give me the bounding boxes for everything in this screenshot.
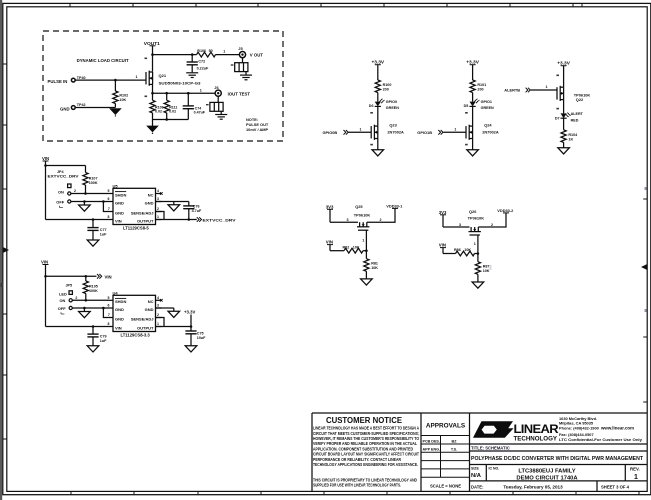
svg-text:200: 200 — [383, 88, 389, 92]
svg-text:3: 3 — [459, 223, 461, 227]
svg-text:Q22: Q22 — [576, 97, 584, 102]
svg-text:GND: GND — [115, 200, 124, 205]
svg-text:R107: R107 — [89, 177, 98, 181]
svg-text:+3.3V: +3.3V — [184, 310, 195, 315]
node junction C79 top — [92, 325, 95, 328]
wire U4 SENSE/ADJ to output row — [156, 318, 165, 327]
svg-text:1: 1 — [157, 322, 159, 326]
svg-text:1: 1 — [634, 474, 638, 481]
svg-text:1: 1 — [136, 75, 138, 79]
pin tiny mark — [370, 144, 373, 146]
pin tiny mark — [370, 112, 373, 114]
svg-text:1: 1 — [157, 215, 159, 219]
wire LED to Q24 drain — [472, 106, 474, 126]
svg-text:NC: NC — [148, 192, 154, 197]
svg-text:1: 1 — [474, 242, 476, 246]
svg-text:R104: R104 — [568, 133, 578, 137]
wire VIN left rail down — [45, 166, 47, 220]
svg-text:R100: R100 — [383, 83, 392, 87]
svg-text:NC: NC — [148, 299, 154, 304]
wire R82 to junction — [363, 250, 366, 252]
svg-text:R86: R86 — [454, 248, 461, 252]
node junction pins 6-7 link — [102, 200, 105, 203]
svg-text:1: 1 — [454, 127, 456, 131]
right border zone ticks — [643, 199, 647, 402]
pin tiny mark — [556, 75, 559, 77]
svg-text:VIN: VIN — [439, 243, 446, 248]
svg-text:RED: RED — [571, 119, 579, 123]
svg-text:THIS CIRCUIT IS PROPRIETARY TO: THIS CIRCUIT IS PROPRIETARY TO LINEAR TE… — [313, 477, 417, 482]
pin tiny mark — [556, 108, 559, 110]
svg-text:SUD50N03-10CP-G3: SUD50N03-10CP-G3 — [159, 82, 201, 86]
wire U5 SENSE/ADJ to output row — [156, 212, 165, 220]
svg-text:N/A: N/A — [471, 473, 482, 479]
svg-text:SENSE/ADJ: SENSE/ADJ — [131, 316, 154, 321]
svg-text:4: 4 — [157, 189, 159, 193]
wire Q23 source to ground — [377, 139, 379, 150]
svg-text:VDD33-2: VDD33-2 — [497, 208, 514, 213]
svg-text:C77: C77 — [100, 228, 107, 232]
svg-text:VIN: VIN — [41, 260, 48, 265]
resistor R101 200 — [470, 80, 475, 93]
node junction gate/R81 — [365, 249, 368, 252]
ground under R81 — [361, 279, 373, 285]
svg-text:GPIO0: GPIO0 — [386, 100, 397, 104]
svg-text:LT1129CS8-5: LT1129CS8-5 — [123, 225, 149, 230]
resistor R87 10K — [477, 254, 479, 262]
wire R87 to ground — [477, 274, 479, 282]
svg-text:8: 8 — [108, 215, 110, 219]
svg-text:TITLE: SCHEMATIC: TITLE: SCHEMATIC — [471, 446, 510, 451]
svg-text:4.7uF: 4.7uF — [192, 209, 202, 213]
node junction Q21 source — [151, 92, 154, 95]
svg-text:2N7002A: 2N7002A — [482, 129, 499, 134]
svg-text:ALERT: ALERT — [571, 112, 584, 116]
wire R86 to junction — [475, 253, 478, 255]
svg-text:VIN: VIN — [115, 218, 122, 223]
svg-text:SCALE = NONE: SCALE = NONE — [430, 483, 461, 488]
svg-text:VOUT1: VOUT1 — [144, 41, 161, 46]
scan edge gray bar — [0, 0, 2, 500]
capacitor C77 1uF — [92, 220, 94, 228]
transistor Q21 SUD50N03-10CP-G3 — [146, 71, 153, 86]
svg-text:APP ENG.: APP ENG. — [423, 448, 441, 452]
svg-text:TP0610K: TP0610K — [354, 213, 371, 218]
svg-text:TP42: TP42 — [77, 103, 86, 107]
wire LED to R104 — [563, 118, 565, 130]
svg-text:2: 2 — [157, 207, 159, 211]
svg-text:DYNAMIC LOAD CIRCUIT: DYNAMIC LOAD CIRCUIT — [77, 58, 129, 63]
wire R81 to ground — [365, 271, 367, 279]
svg-text:VDD33-1: VDD33-1 — [386, 203, 403, 208]
svg-text:V OUT: V OUT — [250, 53, 264, 58]
resistor R105 100K — [85, 276, 87, 281]
svg-text:6: 6 — [108, 197, 110, 201]
ground bar under J5 pads — [240, 75, 252, 80]
Linear Technology logo — [473, 421, 514, 438]
node junction C72 top — [191, 53, 194, 56]
svg-text:APPROVALS: APPROVALS — [426, 423, 466, 430]
pin tiny mark — [465, 144, 468, 146]
wire VIN to R82 — [330, 250, 344, 252]
svg-text:VIN: VIN — [105, 274, 112, 279]
svg-text:10mV / AMP: 10mV / AMP — [246, 127, 269, 132]
svg-text:D7: D7 — [555, 116, 560, 120]
regulator U5 LT1129CS8-5 — [113, 188, 156, 224]
node junction R105 top — [85, 275, 88, 278]
resistor R109 0.02 — [152, 93, 154, 100]
svg-text:50: 50 — [209, 49, 213, 53]
transistor Q26 TP0610K — [469, 227, 481, 235]
svg-text:C79: C79 — [100, 334, 107, 338]
svg-text:Phone: (408)432-1900: Phone: (408)432-1900 — [559, 426, 599, 431]
svg-text:GPIO1: GPIO1 — [481, 100, 492, 104]
svg-text:GND: GND — [145, 307, 154, 312]
ground under R104 — [558, 148, 570, 154]
wire VDD33-2 down and to Q26 drain — [478, 213, 506, 227]
right border center arrow mark — [641, 264, 647, 270]
svg-text:SHDN: SHDN — [115, 299, 126, 304]
off-page connector EXTVCC_DRV — [197, 217, 202, 222]
wire VIN to R86 — [443, 253, 456, 255]
wire VOUT1 rail down to Q21 drain — [152, 55, 154, 72]
wire jumper ON to U4 SHDN — [72, 299, 107, 301]
svg-text:ON: ON — [60, 298, 66, 303]
svg-text:CUSTOMER NOTICE: CUSTOMER NOTICE — [326, 416, 402, 425]
svg-text:2N7002A: 2N7002A — [387, 129, 404, 134]
svg-text:10K: 10K — [483, 269, 490, 273]
node junction VIN top — [44, 275, 47, 278]
svg-text:POLYPHASE DC/DC CONVERTER WITH: POLYPHASE DC/DC CONVERTER WITH DIGITAL P… — [471, 456, 644, 462]
address block — [559, 416, 643, 442]
svg-text:EXTVCC_DRV: EXTVCC_DRV — [203, 218, 236, 223]
NC pin no-connect mark — [160, 299, 163, 302]
svg-text:U4: U4 — [113, 290, 119, 295]
wire VIN top horizontal — [46, 165, 86, 167]
svg-text:7: 7 — [108, 313, 110, 317]
resistor R111 0.02 — [166, 93, 168, 100]
pin 3 tiny mark Q21 source — [145, 96, 148, 98]
svg-text:Q26: Q26 — [469, 209, 477, 214]
svg-text:OFF: OFF — [56, 199, 64, 204]
resistor R82 10K — [344, 248, 363, 253]
svg-text:Q24: Q24 — [484, 123, 492, 128]
svg-text:3: 3 — [347, 218, 349, 222]
svg-text:TP40: TP40 — [77, 76, 86, 80]
svg-text:1: 1 — [360, 127, 362, 131]
transistor Q22 TP0610K — [557, 86, 564, 101]
svg-text:IC NO.: IC NO. — [489, 467, 500, 471]
customer notice body text — [313, 426, 420, 488]
J6 pad footprint — [217, 96, 219, 102]
wire VOUT1 stub — [150, 45, 156, 47]
ground under R102 — [110, 109, 121, 117]
svg-text:2: 2 — [74, 189, 76, 193]
wire VIN row to pin 8 — [46, 219, 108, 221]
svg-text:3V3: 3V3 — [326, 204, 334, 209]
svg-text:0.02: 0.02 — [169, 110, 176, 114]
svg-text:R106: R106 — [197, 49, 206, 53]
ground under Q23 — [372, 150, 384, 156]
wire 3V3 to Q26 source — [443, 226, 470, 228]
top border zone ticks — [70, 3, 582, 6]
pin tiny mark — [465, 112, 468, 114]
node junction VIN — [44, 164, 47, 167]
wire U4 OUTPUT right — [156, 326, 192, 328]
svg-text:GND: GND — [115, 316, 124, 321]
resistor R107 100K — [83, 173, 88, 186]
node junction C74 top — [187, 92, 190, 95]
svg-text:R87: R87 — [483, 264, 490, 268]
svg-text:D5: D5 — [464, 104, 469, 108]
svg-text:10K: 10K — [371, 266, 378, 270]
svg-text:5: 5 — [108, 189, 110, 193]
resistor R104 1K — [561, 130, 566, 143]
svg-text:GND: GND — [115, 210, 124, 215]
ground under C79 — [87, 346, 99, 352]
svg-text:Q23: Q23 — [389, 123, 397, 128]
wire PULSE IN to Q21 gate — [75, 79, 146, 81]
wire VIN to off-page — [46, 275, 97, 277]
off-page connector VIN — [97, 274, 102, 279]
node junction ground stub — [83, 307, 86, 310]
wire Q25 gate down — [365, 230, 367, 251]
svg-text:TECHNOLOGY APPLICATIONS ENGINE: TECHNOLOGY APPLICATIONS ENGINEERING FOR … — [313, 462, 418, 467]
wire +3.3V down to R100 — [377, 65, 379, 80]
svg-text:T.S.: T.S. — [451, 448, 457, 452]
svg-text:OFF: OFF — [58, 306, 66, 311]
svg-text:200: 200 — [477, 88, 483, 92]
wire jumper OFF to pin6 row — [71, 201, 107, 203]
svg-text:1uF: 1uF — [100, 232, 107, 236]
ground at jumper OFF — [83, 308, 85, 312]
resistor R106 50 — [197, 52, 216, 57]
resistor R100 200 — [375, 80, 380, 93]
node junction R107 bottom — [84, 192, 87, 195]
ground under R87 — [472, 282, 484, 288]
svg-text:LTC3880EUJ FAMILY: LTC3880EUJ FAMILY — [518, 468, 575, 474]
wire down to R107 — [85, 166, 87, 173]
transistor Q23 2N7002A — [371, 125, 378, 140]
wire Q21 source down — [152, 84, 154, 93]
node junction gate/R87 — [477, 252, 480, 255]
wire gate ALERTB — [531, 89, 557, 91]
node junction VOUT1 rail — [151, 53, 154, 56]
transistor Q24 2N7002A — [466, 125, 473, 140]
node junction pins 6-7 link — [102, 307, 105, 310]
svg-text:6: 6 — [108, 304, 110, 308]
svg-text:GND: GND — [115, 307, 124, 312]
capacitor C72 0.22uF — [191, 55, 193, 62]
svg-text:D6: D6 — [369, 104, 374, 108]
ground bar under J6 pads — [215, 115, 227, 120]
svg-text:5: 5 — [108, 296, 110, 300]
ground bar under C72 — [186, 73, 198, 78]
resistor R81 10K — [365, 251, 367, 259]
wire VIN stub down — [43, 264, 49, 266]
svg-text:R101: R101 — [477, 83, 486, 87]
svg-text:VIN: VIN — [42, 156, 49, 161]
wire R106 to J5 — [216, 54, 240, 56]
transistor Q25 TP0610K — [357, 222, 369, 230]
left border center arrow mark — [3, 247, 9, 253]
wire VDD33-1 down and to Q25 drain — [367, 208, 395, 222]
wire VIN stub — [43, 160, 49, 162]
resistor R86 10K — [456, 251, 475, 256]
svg-text:SHEET 3 OF 4: SHEET 3 OF 4 — [601, 485, 630, 490]
wire Q26 gate down — [477, 235, 479, 254]
svg-text:3: 3 — [157, 304, 159, 308]
svg-text:TECHNOLOGY: TECHNOLOGY — [514, 436, 558, 443]
svg-text:1uF: 1uF — [100, 339, 107, 343]
capacitor C76 4.7uF — [188, 202, 190, 206]
svg-text:TP0610K: TP0610K — [468, 216, 485, 221]
svg-text:PULSE IN: PULSE IN — [48, 79, 68, 84]
svg-text:GPIO0B: GPIO0B — [323, 130, 338, 135]
wire U4 GND pin3 right — [156, 307, 174, 309]
ground under Q24 — [467, 150, 479, 156]
svg-text:JP5: JP5 — [66, 283, 73, 287]
svg-text:BZ: BZ — [452, 439, 458, 443]
svg-text:1: 1 — [200, 89, 202, 93]
wire U5 GND pin3 right — [156, 201, 189, 203]
svg-text:R81: R81 — [371, 261, 378, 265]
svg-text:C75: C75 — [197, 331, 204, 335]
svg-text:IOUT TEST: IOUT TEST — [228, 91, 251, 96]
node junction R102 top — [114, 79, 117, 82]
wire bottom rail of shunt resistors — [152, 113, 154, 120]
node junction C75 top — [190, 325, 193, 328]
svg-text:3V3: 3V3 — [439, 210, 447, 215]
NC pin no-connect mark — [160, 192, 163, 195]
wire jumper ON to U5 SHDN — [71, 193, 107, 195]
svg-text:DATE:: DATE: — [471, 485, 483, 490]
svg-text:REV.: REV. — [630, 466, 640, 471]
svg-text:4: 4 — [157, 296, 159, 300]
svg-text:2: 2 — [491, 223, 493, 227]
svg-text:SUPPLIED FOR USE WITH LINEAR T: SUPPLIED FOR USE WITH LINEAR TECHNOLOGY … — [313, 483, 401, 488]
svg-text:EXTVCC_DRV: EXTVCC_DRV — [48, 174, 80, 178]
svg-text:ALERTB: ALERTB — [504, 88, 520, 93]
wire Q22 drain down to LED D7 — [563, 100, 565, 114]
node junction R105 bottom — [85, 299, 88, 302]
led D7 ALERT RED — [561, 113, 572, 119]
node junction ground stub — [83, 200, 86, 203]
node junction C76 bottom on output wire — [188, 218, 191, 221]
svg-text:1: 1 — [223, 49, 225, 53]
wire Q24 source to ground — [472, 139, 474, 150]
dashed enclosure box — [43, 31, 283, 141]
svg-text:U5: U5 — [113, 183, 119, 188]
svg-text:ON: ON — [58, 189, 64, 194]
wire 3V3 to Q25 source — [330, 221, 358, 223]
svg-text:GREEN: GREEN — [481, 106, 494, 110]
svg-text:DEMO CIRCUIT 1740A: DEMO CIRCUIT 1740A — [516, 476, 578, 482]
svg-text:Tuesday, February 05, 2013: Tuesday, February 05, 2013 — [503, 485, 563, 490]
svg-text:LINEAR: LINEAR — [514, 422, 559, 436]
wire R101 to LED D5 — [472, 93, 474, 102]
svg-text:VIN: VIN — [115, 325, 122, 330]
node junction C77 top — [92, 218, 95, 221]
svg-text:3: 3 — [157, 197, 159, 201]
svg-text:0.02: 0.02 — [155, 110, 162, 114]
wire LED to Q23 drain — [377, 106, 379, 126]
svg-text:GREEN: GREEN — [386, 106, 399, 110]
svg-text:100K: 100K — [89, 289, 98, 293]
led D6 GPIO0 GREEN — [375, 98, 385, 106]
svg-text:LED: LED — [59, 291, 67, 296]
svg-text:OUTPUT: OUTPUT — [137, 218, 154, 223]
wire gate GPIO0B — [349, 131, 372, 133]
svg-text:R102: R102 — [119, 94, 128, 98]
svg-text:JP4: JP4 — [57, 170, 65, 174]
svg-text:7: 7 — [108, 207, 110, 211]
svg-text:1: 1 — [546, 85, 548, 89]
svg-text:0.47uF: 0.47uF — [194, 111, 206, 115]
svg-text:Fax: (408)434-0507: Fax: (408)434-0507 — [559, 432, 594, 437]
svg-text:8: 8 — [108, 322, 110, 326]
ground under C75 — [185, 346, 197, 352]
svg-text:C72: C72 — [198, 59, 205, 63]
wire pin6 to pin7 — [103, 308, 107, 318]
wire VIN row to pin 8 — [46, 326, 108, 328]
svg-text:100K: 100K — [89, 181, 98, 185]
svg-text:R82: R82 — [343, 245, 350, 249]
svg-text:Q21: Q21 — [159, 73, 167, 78]
wire source row to J6 — [153, 92, 216, 94]
wire R102 bottom to GND rail — [114, 104, 116, 108]
svg-text:2: 2 — [75, 296, 77, 300]
ground under C77 — [87, 240, 99, 246]
regulator U4 LT1129CS8-3.3 — [113, 295, 156, 331]
svg-text:0.22uF: 0.22uF — [197, 66, 209, 70]
svg-text:www.linear.com: www.linear.com — [600, 426, 634, 431]
J5 pad footprint — [242, 58, 244, 63]
svg-text:SIZE: SIZE — [471, 467, 479, 471]
svg-text:VIN: VIN — [326, 240, 333, 245]
svg-text:LT1129CS8-3.3: LT1129CS8-3.3 — [121, 332, 151, 337]
svg-text:GND: GND — [60, 107, 70, 112]
svg-text:GPIO1B: GPIO1B — [417, 130, 432, 135]
svg-text:10K: 10K — [119, 98, 126, 102]
title block outline — [312, 413, 647, 491]
svg-text:OUTPUT: OUTPUT — [137, 325, 154, 330]
ground at jumper OFF — [83, 202, 85, 206]
wire pin6 to pin7 — [103, 202, 107, 212]
resistor R102 10K — [113, 91, 118, 104]
wire to R102 — [114, 80, 116, 91]
wire jumper OFF to pin6 row — [72, 307, 107, 309]
svg-text:2: 2 — [157, 313, 159, 317]
wire +3.3V down to Q22 source — [563, 66, 565, 88]
svg-text:2: 2 — [380, 218, 382, 222]
capacitor C79 1uF — [92, 327, 94, 335]
svg-text:R105: R105 — [89, 284, 98, 288]
svg-text:Q25: Q25 — [355, 204, 363, 209]
node junction R111 top — [165, 92, 168, 95]
svg-text:SENSE/ADJ: SENSE/ADJ — [131, 210, 154, 215]
wire R104 to ground — [563, 142, 565, 147]
wire TP42 to ground — [75, 107, 115, 109]
svg-text:LTC Confidential-For Customer: LTC Confidential-For Customer Use Only — [559, 437, 643, 442]
wire +3.3V down to R101 — [472, 65, 474, 80]
wire gate GPIO1B — [443, 131, 466, 133]
svg-text:PCB DES.: PCB DES. — [423, 439, 440, 443]
svg-text:1: 1 — [362, 239, 364, 243]
bottom border zone ticks — [71, 491, 639, 494]
svg-text:10K: 10K — [353, 245, 360, 249]
wire U5 OUTPUT right — [156, 219, 197, 221]
